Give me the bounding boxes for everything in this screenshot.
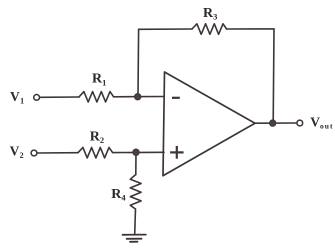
op-amp non-inverting pin mark (plus) bbox=[170, 146, 184, 159]
wire feedback top left bbox=[139, 28, 192, 30]
resistor R3 bbox=[192, 24, 227, 35]
svg-text:R4: R4 bbox=[111, 187, 126, 203]
svg-text:V1: V1 bbox=[10, 89, 24, 106]
wire R4 to ground bbox=[134, 212, 137, 234]
op-amp U1 bbox=[163, 72, 255, 176]
node A (junction R1 / feedback / inverting input) bbox=[134, 93, 141, 100]
resistor R1 bbox=[79, 92, 114, 102]
wire feedback left vertical bbox=[137, 29, 140, 96]
wire node to R4 bbox=[135, 152, 137, 174]
input terminal V1 (open circle) bbox=[34, 95, 40, 101]
wire feedback right vertical bbox=[272, 29, 275, 123]
resistor R4 bbox=[130, 175, 141, 213]
wire R1 to inverting input bbox=[114, 96, 164, 98]
svg-text:Vout: Vout bbox=[310, 114, 333, 130]
op-amp inverting pin mark (minus) bbox=[172, 97, 180, 99]
svg-text:R1: R1 bbox=[92, 72, 106, 88]
resistor R2 bbox=[78, 147, 113, 158]
svg-text:R2: R2 bbox=[90, 130, 104, 146]
wire V2 to R2 bbox=[37, 152, 78, 154]
wire op-amp output bbox=[255, 122, 297, 124]
node B (junction R2 / R4 / non-inverting input) bbox=[133, 149, 140, 156]
svg-text:R3: R3 bbox=[203, 6, 217, 22]
input terminal V2 (open circle) bbox=[31, 150, 37, 156]
node C (output junction) bbox=[269, 120, 276, 127]
ground bbox=[123, 235, 146, 242]
wire V1 to R1 bbox=[40, 96, 79, 98]
svg-text:V2: V2 bbox=[10, 144, 24, 161]
output terminal Vout (open circle) bbox=[297, 120, 303, 126]
wire R2 to non-inverting input bbox=[113, 151, 164, 153]
wire feedback top right bbox=[227, 28, 274, 30]
